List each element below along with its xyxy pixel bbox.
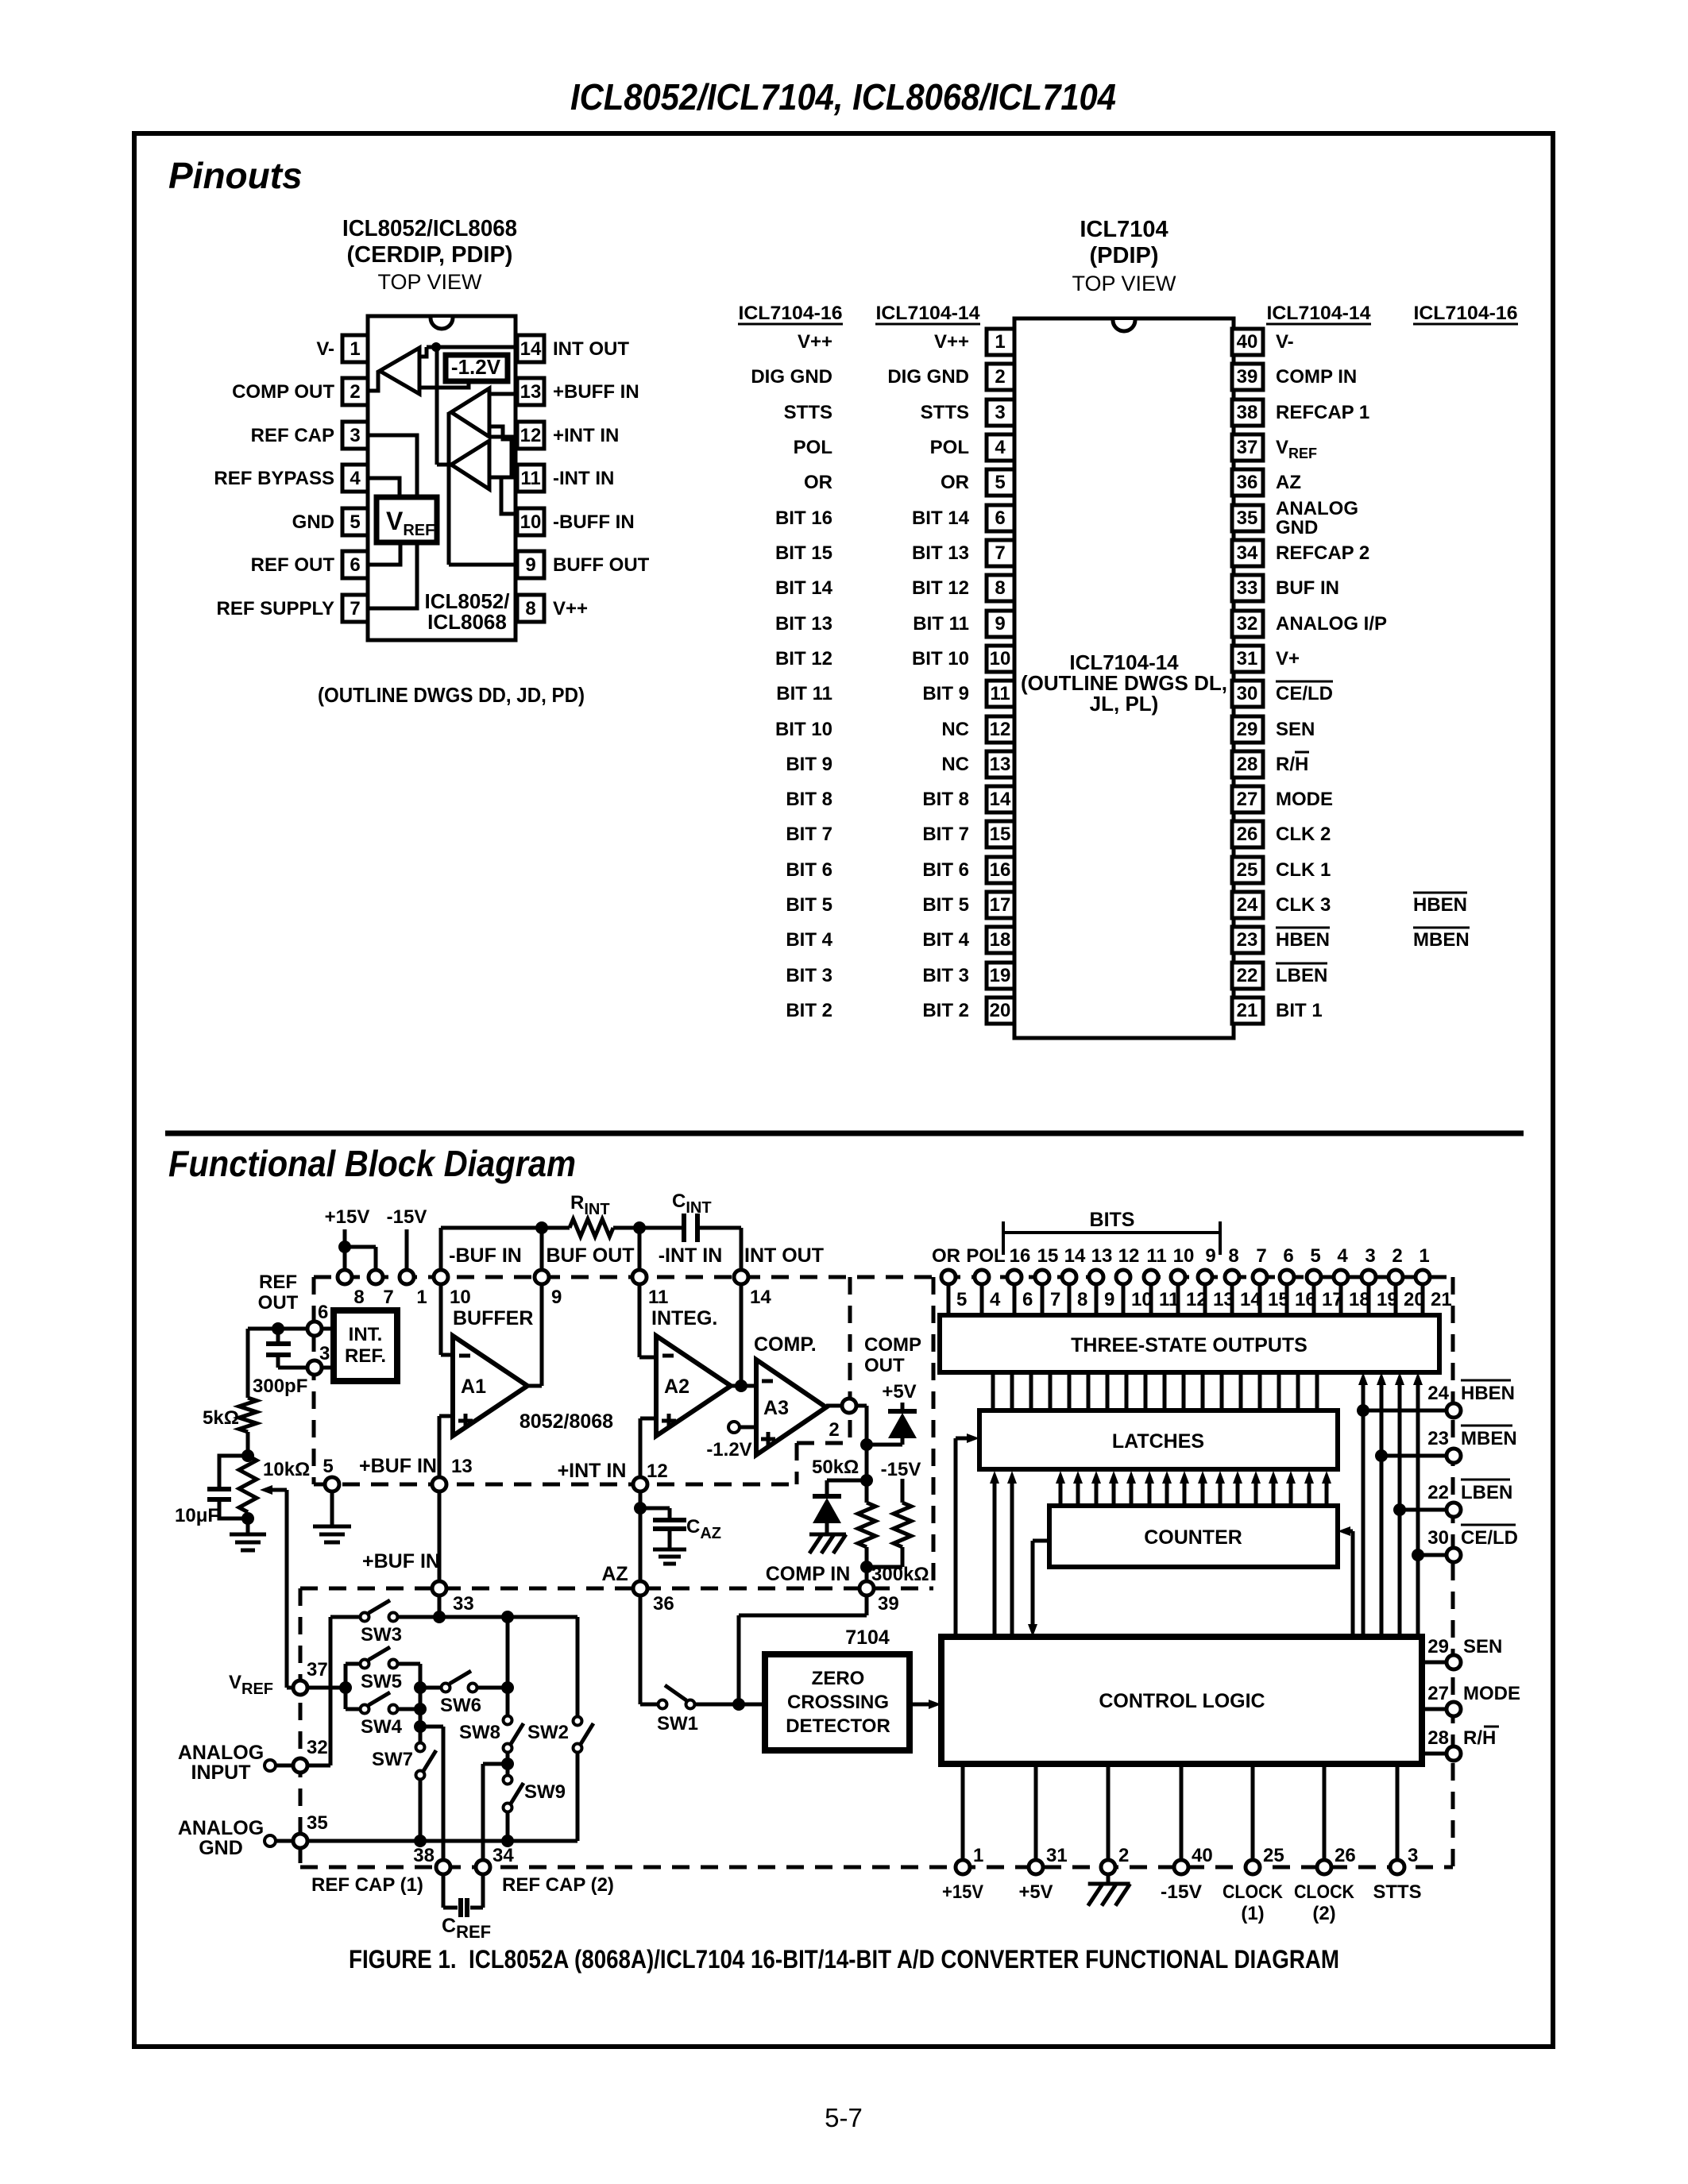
wire to terminal CE/LD bbox=[1418, 1553, 1445, 1557]
THREE-STATE OUTPUTS box bbox=[940, 1315, 1439, 1372]
junction dot pot bottom bbox=[241, 1512, 254, 1525]
svg-text:30: 30 bbox=[1427, 1527, 1449, 1549]
svg-text:10: 10 bbox=[1173, 1245, 1195, 1267]
switch SW4 bbox=[346, 1707, 360, 1711]
svg-text:BIT 6: BIT 6 bbox=[922, 859, 969, 881]
pin 13 box bbox=[517, 378, 544, 405]
wire to pin 14 INT OUT bbox=[427, 345, 516, 349]
svg-text:V-: V- bbox=[316, 338, 334, 360]
svg-text:3: 3 bbox=[319, 1343, 330, 1364]
svg-text:+15V: +15V bbox=[325, 1206, 370, 1228]
wire SW9 to gnd bus bbox=[506, 1812, 510, 1841]
svg-text:REF: REF bbox=[259, 1271, 297, 1293]
svg-text:REF BYPASS: REF BYPASS bbox=[214, 468, 334, 489]
svg-text:DIG GND: DIG GND bbox=[887, 366, 969, 388]
diode to +5V bbox=[888, 1413, 917, 1438]
svg-text:SW8: SW8 bbox=[459, 1722, 500, 1743]
svg-text:+BUF IN: +BUF IN bbox=[362, 1550, 440, 1572]
svg-text:28: 28 bbox=[1427, 1727, 1449, 1749]
junction dot SW7 gnd bbox=[414, 1835, 427, 1847]
wire to +5V diode bbox=[867, 1443, 902, 1447]
pin 10 box (left) bbox=[987, 646, 1014, 672]
svg-text:32: 32 bbox=[307, 1737, 328, 1758]
-1.2V input terminal of A3 bbox=[728, 1422, 740, 1433]
svg-text:INT OUT: INT OUT bbox=[553, 338, 629, 360]
terminal MODE bbox=[1422, 1707, 1446, 1711]
dashed outline 8052/8068 right edge bbox=[848, 1277, 852, 1443]
wire SW1 to zero crossing detector bbox=[695, 1703, 765, 1707]
terminal pin 2 bbox=[1101, 1860, 1115, 1874]
svg-text:ICL8052/ICL7104, ICL8068/ICL71: ICL8052/ICL7104, ICL8068/ICL7104 bbox=[570, 76, 1116, 118]
svg-text:BIT 15: BIT 15 bbox=[775, 542, 832, 564]
wire to terminal MBEN bbox=[1381, 1454, 1445, 1458]
svg-text:3: 3 bbox=[995, 402, 1005, 423]
wire terminal 13 to A1 non-inverting input bbox=[439, 1414, 453, 1418]
svg-text:23: 23 bbox=[1237, 929, 1258, 951]
svg-text:A3: A3 bbox=[763, 1397, 789, 1419]
dashed outline 8052/8068 left edge bbox=[312, 1277, 316, 1484]
svg-text:BIT 11: BIT 11 bbox=[913, 613, 969, 635]
svg-text:INT.: INT. bbox=[349, 1324, 383, 1345]
junction dot diode branch bbox=[860, 1438, 873, 1451]
terminal 37 VREF bbox=[293, 1680, 307, 1695]
wire bus corner to SW2 bbox=[576, 1753, 580, 1841]
svg-text:INPUT: INPUT bbox=[191, 1761, 251, 1784]
svg-text:TOP VIEW: TOP VIEW bbox=[1072, 272, 1176, 295]
dashed outline 8052/8068 bottom edge bbox=[314, 1483, 797, 1487]
arrow into counter right side bbox=[1351, 1531, 1355, 1637]
svg-text:V++: V++ bbox=[553, 598, 588, 619]
svg-text:COMP OUT: COMP OUT bbox=[232, 381, 334, 403]
svg-text:8: 8 bbox=[525, 598, 535, 619]
svg-text:29: 29 bbox=[1427, 1636, 1449, 1657]
junction dot SW6 branch bbox=[414, 1681, 427, 1694]
IC notch bbox=[1113, 320, 1135, 331]
chassis ground (zener) bbox=[809, 1533, 846, 1537]
wire SW7 to analog gnd bus bbox=[419, 1780, 423, 1841]
svg-text:LBEN: LBEN bbox=[1461, 1482, 1512, 1503]
svg-text:9: 9 bbox=[995, 613, 1005, 635]
svg-text:11: 11 bbox=[990, 683, 1010, 704]
svg-text:13: 13 bbox=[520, 381, 542, 403]
svg-text:REFCAP 1: REFCAP 1 bbox=[1276, 402, 1369, 423]
wire comparator lower input to -1.2V box bbox=[419, 384, 469, 388]
svg-text:2: 2 bbox=[1392, 1245, 1402, 1267]
control logic pin 31 wire bbox=[1034, 1764, 1038, 1859]
pin 37 box (right) bbox=[1232, 434, 1263, 461]
svg-text:CLOCK: CLOCK bbox=[1223, 1881, 1284, 1903]
terminal 13 (output) bbox=[1095, 1285, 1099, 1315]
svg-text:7: 7 bbox=[995, 542, 1005, 564]
svg-text:12: 12 bbox=[990, 719, 1011, 740]
svg-text:LBEN: LBEN bbox=[1276, 965, 1327, 986]
svg-text:SW6: SW6 bbox=[440, 1695, 481, 1716]
svg-text:50kΩ: 50kΩ bbox=[812, 1457, 859, 1478]
svg-text:5kΩ: 5kΩ bbox=[203, 1407, 239, 1429]
wire REF OUT to terminal 6 bbox=[248, 1327, 307, 1331]
junction dot split bbox=[339, 1681, 352, 1694]
terminal 9 (output) bbox=[1203, 1285, 1207, 1315]
pin 30 box (right) bbox=[1232, 681, 1263, 707]
pin 10 box bbox=[517, 508, 544, 535]
svg-text:36: 36 bbox=[1237, 472, 1258, 493]
svg-text:A1: A1 bbox=[461, 1376, 486, 1398]
pin 13 box (left) bbox=[987, 751, 1014, 778]
svg-text:BIT 10: BIT 10 bbox=[912, 648, 969, 669]
svg-text:21: 21 bbox=[1431, 1289, 1452, 1310]
wire terminal 12 to A2 non-inverting input bbox=[640, 1417, 656, 1421]
junction dot CAZ bbox=[634, 1502, 647, 1515]
VREF box (internal reference) bbox=[377, 497, 437, 542]
svg-text:25: 25 bbox=[1237, 859, 1258, 881]
svg-text:5-7: 5-7 bbox=[825, 2103, 863, 2132]
svg-text:31: 31 bbox=[1046, 1845, 1068, 1866]
IC notch bbox=[431, 318, 453, 329]
terminal POL (output) bbox=[980, 1285, 984, 1315]
capacitor CINT bbox=[639, 1226, 684, 1230]
svg-text:BIT 8: BIT 8 bbox=[786, 789, 832, 810]
pin 19 box (left) bbox=[987, 963, 1014, 989]
svg-text:STTS: STTS bbox=[921, 402, 969, 423]
svg-text:OR: OR bbox=[932, 1245, 960, 1267]
svg-text:HBEN: HBEN bbox=[1461, 1383, 1515, 1404]
terminal HBEN bbox=[1447, 1403, 1461, 1418]
terminal 35 ANALOG GND bbox=[293, 1834, 307, 1848]
svg-text:ICL8052/ICL8068: ICL8052/ICL8068 bbox=[342, 216, 517, 241]
svg-text:8: 8 bbox=[353, 1287, 364, 1308]
-1.2V reference box bbox=[446, 355, 508, 381]
BITS bracket bbox=[1003, 1231, 1220, 1234]
svg-text:BIT 5: BIT 5 bbox=[786, 894, 832, 916]
pin 17 box (left) bbox=[987, 892, 1014, 918]
svg-text:BIT 6: BIT 6 bbox=[786, 859, 832, 881]
svg-text:5: 5 bbox=[995, 472, 1005, 493]
svg-text:STTS: STTS bbox=[784, 402, 832, 423]
pin 4 box (left) bbox=[987, 434, 1014, 461]
svg-text:6: 6 bbox=[1022, 1289, 1033, 1310]
arrows counter to latches bbox=[1059, 1482, 1063, 1506]
terminal 6 (output) bbox=[1285, 1285, 1289, 1315]
arrow control logic to latches (left) bbox=[954, 1438, 958, 1637]
wire SW5/SW4 join bbox=[419, 1664, 423, 1709]
op-amp A3 COMP. bbox=[756, 1360, 826, 1455]
svg-text:8: 8 bbox=[1077, 1289, 1087, 1310]
svg-text:1: 1 bbox=[416, 1287, 427, 1308]
pin 2 box bbox=[342, 378, 368, 405]
svg-text:+BUFF IN: +BUFF IN bbox=[553, 381, 639, 403]
svg-text:HBEN: HBEN bbox=[1413, 894, 1467, 916]
wire pin 7 to VREF box bbox=[368, 542, 417, 608]
terminal LBEN bbox=[1447, 1503, 1461, 1517]
svg-text:6: 6 bbox=[995, 507, 1005, 529]
svg-text:300pF: 300pF bbox=[253, 1376, 307, 1397]
terminal CE/LD bbox=[1447, 1548, 1461, 1562]
junction dot CE/LD bbox=[1412, 1549, 1424, 1561]
wire buffer upper lower corner to pin 12 bbox=[489, 426, 516, 439]
svg-text:8: 8 bbox=[995, 577, 1005, 599]
svg-text:11: 11 bbox=[648, 1287, 668, 1308]
svg-text:ICL7104-16: ICL7104-16 bbox=[1414, 303, 1518, 324]
terminal 13 +BUF IN bbox=[438, 1416, 442, 1476]
junction dot REF CAP 1 branch bbox=[414, 1720, 427, 1733]
CONTROL LOGIC box bbox=[941, 1637, 1422, 1764]
svg-text:34: 34 bbox=[1237, 542, 1258, 564]
wire 5k to pot junction bbox=[246, 1432, 250, 1456]
svg-text:39: 39 bbox=[1237, 366, 1258, 388]
wire COMP IN to ZCD input bbox=[865, 1596, 869, 1615]
svg-text:9: 9 bbox=[525, 554, 535, 576]
svg-text:REF CAP (2): REF CAP (2) bbox=[502, 1874, 614, 1896]
wire CINT to terminal 14 and down to A2 output bbox=[740, 1228, 744, 1269]
terminal 11 (output) bbox=[1149, 1285, 1153, 1315]
svg-text:BIT 9: BIT 9 bbox=[922, 683, 969, 704]
dashed outline 7104 step edge bbox=[932, 1277, 936, 1588]
svg-text:3: 3 bbox=[350, 425, 360, 446]
terminal 2 (output) bbox=[1394, 1285, 1398, 1315]
chassis ground (digital) bbox=[1107, 1875, 1111, 1884]
pin 24 box (right) bbox=[1232, 892, 1263, 918]
svg-text:5: 5 bbox=[350, 511, 360, 533]
svg-text:5: 5 bbox=[323, 1456, 333, 1477]
terminal 1 bbox=[400, 1270, 414, 1284]
svg-text:35: 35 bbox=[307, 1812, 328, 1834]
junction dot 33 bus bbox=[433, 1611, 446, 1623]
pin 11 box bbox=[517, 465, 544, 492]
pin 22 box (right) bbox=[1232, 963, 1263, 989]
terminal 39 COMP IN bbox=[859, 1581, 874, 1596]
junction dot COMP IN node bbox=[860, 1561, 873, 1573]
svg-text:SW1: SW1 bbox=[657, 1713, 698, 1734]
svg-text:DIG GND: DIG GND bbox=[751, 366, 832, 388]
svg-text:MODE: MODE bbox=[1463, 1683, 1520, 1704]
wire +15V to terminals 8 and 7 bbox=[343, 1229, 347, 1269]
svg-text:22: 22 bbox=[1237, 965, 1258, 986]
control logic pin 2 wire bbox=[1107, 1764, 1111, 1859]
terminal pin 3 bbox=[1390, 1860, 1404, 1874]
svg-text:40: 40 bbox=[1237, 331, 1258, 353]
pin 21 box (right) bbox=[1232, 997, 1263, 1024]
svg-text:BIT 10: BIT 10 bbox=[775, 719, 832, 740]
svg-text:2: 2 bbox=[995, 366, 1005, 388]
svg-text:GND: GND bbox=[292, 511, 334, 533]
svg-text:COMP: COMP bbox=[864, 1334, 921, 1356]
wire comparator output step bbox=[419, 347, 427, 357]
wire junction to 10uF capacitor bbox=[219, 1456, 248, 1487]
wire 33 to switch bus bbox=[438, 1596, 442, 1617]
pin 8 box bbox=[517, 595, 544, 622]
svg-text:3: 3 bbox=[1365, 1245, 1375, 1267]
svg-text:26: 26 bbox=[1335, 1845, 1356, 1866]
svg-text:21: 21 bbox=[1237, 1000, 1258, 1021]
pin 25 box (right) bbox=[1232, 857, 1263, 883]
svg-text:6: 6 bbox=[1283, 1245, 1293, 1267]
svg-text:+5V: +5V bbox=[882, 1381, 916, 1403]
switch SW8 bbox=[504, 1716, 512, 1725]
svg-text:Pinouts: Pinouts bbox=[168, 155, 303, 196]
pin 28 box (right) bbox=[1232, 751, 1263, 778]
pin 40 box (right) bbox=[1232, 329, 1263, 355]
zener diode to chassis ground bbox=[813, 1494, 841, 1499]
svg-text:MODE: MODE bbox=[1276, 789, 1333, 810]
svg-text:4: 4 bbox=[995, 437, 1006, 458]
wire REF OUT down to 5k resistor bbox=[246, 1329, 250, 1398]
terminal 2 COMP OUT bbox=[842, 1399, 856, 1413]
terminal pin 1 bbox=[956, 1860, 970, 1874]
IC body ICL8052/ICL8068 bbox=[368, 316, 516, 640]
svg-text:39: 39 bbox=[878, 1593, 899, 1615]
svg-text:1: 1 bbox=[973, 1845, 983, 1866]
svg-text:37: 37 bbox=[307, 1659, 328, 1680]
svg-text:36: 36 bbox=[653, 1593, 674, 1615]
svg-text:13: 13 bbox=[1091, 1245, 1113, 1267]
svg-text:4: 4 bbox=[1337, 1245, 1348, 1267]
svg-text:+INT IN: +INT IN bbox=[553, 425, 619, 446]
pin 27 box (right) bbox=[1232, 786, 1263, 812]
svg-text:9: 9 bbox=[1205, 1245, 1215, 1267]
terminal 3 bbox=[307, 1360, 322, 1375]
svg-text:JL, PL): JL, PL) bbox=[1090, 692, 1159, 716]
junction dot at BUF OUT bbox=[535, 1221, 548, 1234]
pin 16 box (left) bbox=[987, 857, 1014, 883]
svg-text:33: 33 bbox=[1237, 577, 1258, 599]
pin 14 box bbox=[517, 335, 544, 362]
svg-text:R/H: R/H bbox=[1276, 754, 1308, 775]
svg-text:7: 7 bbox=[350, 598, 360, 619]
svg-text:BIT 2: BIT 2 bbox=[922, 1000, 969, 1021]
pin 36 box (right) bbox=[1232, 469, 1263, 496]
wire bus right corner down to SW2 bbox=[576, 1617, 580, 1716]
svg-text:-15V: -15V bbox=[881, 1459, 921, 1480]
svg-text:SW9: SW9 bbox=[524, 1781, 566, 1803]
svg-text:BIT 4: BIT 4 bbox=[922, 929, 969, 951]
switch SW1 bbox=[659, 1700, 667, 1709]
svg-text:7: 7 bbox=[1050, 1289, 1060, 1310]
svg-text:STTS: STTS bbox=[1373, 1881, 1422, 1903]
wire 50k to terminal 39 bbox=[865, 1547, 869, 1580]
svg-text:BIT 7: BIT 7 bbox=[922, 824, 969, 845]
svg-text:COMP.: COMP. bbox=[754, 1333, 817, 1356]
svg-text:ANALOG: ANALOG bbox=[1276, 498, 1358, 519]
pin 5 box (left) bbox=[987, 469, 1014, 496]
svg-text:ICL7104: ICL7104 bbox=[1080, 217, 1168, 242]
svg-text:POL: POL bbox=[794, 437, 832, 458]
wire counter left down to control logic bbox=[1033, 1539, 1049, 1543]
svg-text:SW7: SW7 bbox=[372, 1749, 413, 1770]
svg-text:POL: POL bbox=[930, 437, 969, 458]
capacitor CREF bbox=[442, 1875, 446, 1908]
wire dot down to terminal 9 bbox=[540, 1228, 544, 1269]
svg-text:29: 29 bbox=[1237, 719, 1258, 740]
svg-text:10: 10 bbox=[450, 1287, 471, 1308]
terminal 15 (output) bbox=[1041, 1285, 1045, 1315]
svg-text:28: 28 bbox=[1237, 754, 1258, 775]
svg-text:26: 26 bbox=[1237, 824, 1258, 845]
svg-text:CE/LD: CE/LD bbox=[1276, 683, 1333, 704]
svg-text:12: 12 bbox=[1118, 1245, 1140, 1267]
junction dot zener branch bbox=[860, 1474, 873, 1487]
COUNTER box bbox=[1049, 1506, 1338, 1567]
svg-text:38: 38 bbox=[413, 1845, 435, 1866]
svg-text:10μF: 10μF bbox=[175, 1505, 219, 1526]
junction dot SW6 to SW8 bbox=[501, 1681, 514, 1694]
svg-text:OUT: OUT bbox=[864, 1355, 905, 1376]
buffer triangle upper (internal) bbox=[451, 388, 489, 437]
terminal pin 31 bbox=[1029, 1860, 1043, 1874]
arrow ZCD to control logic bbox=[910, 1703, 931, 1707]
svg-text:NC: NC bbox=[941, 719, 969, 740]
pin 4 box bbox=[342, 465, 368, 492]
resistor 5k bbox=[239, 1398, 257, 1432]
op-amp A2 INTEG. bbox=[656, 1336, 731, 1436]
terminal 10 -BUF IN bbox=[434, 1270, 448, 1284]
svg-text:15: 15 bbox=[990, 824, 1011, 845]
potentiometer 10k bbox=[239, 1456, 257, 1512]
svg-text:+INT IN: +INT IN bbox=[558, 1460, 627, 1482]
svg-text:ZERO: ZERO bbox=[812, 1668, 865, 1689]
terminal 6 bbox=[307, 1322, 322, 1336]
pin 9 box (left) bbox=[987, 611, 1014, 637]
svg-text:THREE-STATE OUTPUTS: THREE-STATE OUTPUTS bbox=[1071, 1334, 1308, 1356]
svg-text:24: 24 bbox=[1427, 1383, 1449, 1404]
svg-text:BIT 4: BIT 4 bbox=[786, 929, 832, 951]
svg-text:MBEN: MBEN bbox=[1461, 1428, 1517, 1449]
svg-text:CE/LD: CE/LD bbox=[1461, 1527, 1518, 1549]
terminal pin 40 bbox=[1174, 1860, 1188, 1874]
switch SW5 bbox=[346, 1662, 360, 1666]
terminal 11 -INT IN bbox=[632, 1270, 647, 1284]
svg-text:1: 1 bbox=[1419, 1245, 1429, 1267]
junction dot SW4 row bbox=[414, 1703, 427, 1715]
svg-text:COUNTER: COUNTER bbox=[1144, 1526, 1242, 1549]
svg-text:12: 12 bbox=[520, 425, 542, 446]
svg-text:OUT: OUT bbox=[258, 1292, 299, 1314]
terminal pin 25 bbox=[1246, 1860, 1260, 1874]
pin 7 box (left) bbox=[987, 540, 1014, 566]
terminal 10 (output) bbox=[1176, 1285, 1180, 1315]
pin 15 box (left) bbox=[987, 821, 1014, 847]
svg-text:3: 3 bbox=[1408, 1845, 1418, 1866]
svg-text:LATCHES: LATCHES bbox=[1112, 1430, 1204, 1453]
pin 14 box (left) bbox=[987, 786, 1014, 812]
svg-text:-INT IN: -INT IN bbox=[553, 468, 614, 489]
svg-text:16: 16 bbox=[1010, 1245, 1031, 1267]
wire buffer outputs rail down to pin 9 bbox=[447, 412, 451, 565]
svg-text:BIT 7: BIT 7 bbox=[786, 824, 832, 845]
junction dot ZCD input bbox=[732, 1698, 745, 1711]
svg-text:27: 27 bbox=[1427, 1683, 1449, 1704]
wire to terminal LBEN bbox=[1400, 1508, 1445, 1512]
junction dot LBEN bbox=[1393, 1503, 1406, 1516]
terminal OR (output) bbox=[947, 1285, 951, 1315]
svg-text:23: 23 bbox=[1427, 1428, 1449, 1449]
svg-text:-BUFF IN: -BUFF IN bbox=[553, 511, 635, 533]
terminal 3 (output) bbox=[1367, 1285, 1371, 1315]
wire terminal 36 down to SW1 bbox=[639, 1596, 643, 1704]
svg-text:REF SUPPLY: REF SUPPLY bbox=[217, 598, 335, 619]
top feedback rail (BUF OUT to INT OUT) bbox=[441, 1226, 542, 1230]
pin 11 box (left) bbox=[987, 681, 1014, 707]
svg-text:9: 9 bbox=[551, 1287, 562, 1308]
svg-text:19: 19 bbox=[990, 965, 1011, 986]
wire -15V to terminal 1 bbox=[405, 1229, 409, 1269]
svg-text:DETECTOR: DETECTOR bbox=[786, 1715, 890, 1737]
capacitor 300pF bbox=[276, 1329, 280, 1341]
wire to terminal HBEN bbox=[1363, 1409, 1445, 1413]
LATCHES box bbox=[979, 1410, 1338, 1469]
terminal 38 REF CAP 1 bbox=[436, 1860, 450, 1874]
svg-text:SEN: SEN bbox=[1276, 719, 1315, 740]
dashed outline 8052/8068 right notch bbox=[795, 1443, 799, 1484]
